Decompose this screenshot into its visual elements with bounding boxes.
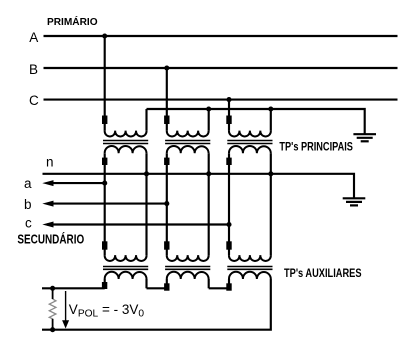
svg-text:TP's PRINCIPAIS: TP's PRINCIPAIS (279, 140, 353, 154)
svg-text:TP's AUXILIARES: TP's AUXILIARES (284, 266, 362, 280)
svg-text:b: b (24, 197, 32, 212)
svg-text:C: C (29, 93, 39, 108)
svg-text:PRIMÁRIO: PRIMÁRIO (47, 15, 98, 28)
svg-text:SECUNDÁRIO: SECUNDÁRIO (17, 231, 84, 246)
svg-text:A: A (29, 30, 38, 45)
svg-text:c: c (25, 216, 32, 231)
svg-text:B: B (29, 62, 38, 77)
svg-text:a: a (24, 176, 32, 191)
svg-text:n: n (46, 155, 54, 170)
